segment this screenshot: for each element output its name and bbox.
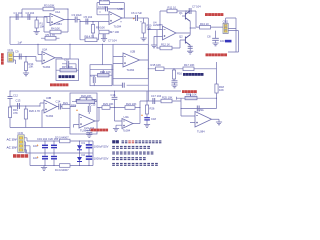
svg-text:10K: 10K	[40, 25, 45, 29]
svg-text:R5 4.7K: R5 4.7K	[46, 33, 56, 37]
svg-text:C13: C13	[16, 99, 21, 103]
svg-text:R8 4.7K: R8 4.7K	[85, 34, 95, 38]
svg-text:C19 104: C19 104	[37, 137, 48, 141]
svg-text:C1 104: C1 104	[14, 11, 23, 15]
svg-text:C16: C16	[111, 93, 116, 97]
svg-text:R17 10K: R17 10K	[184, 63, 195, 67]
svg-text:C18: C18	[151, 117, 156, 121]
svg-text:RP4: RP4	[71, 104, 77, 108]
svg-text:10K: 10K	[219, 88, 224, 92]
svg-text:R16: R16	[177, 72, 182, 76]
svg-text:AC 15V: AC 15V	[7, 145, 17, 149]
svg-text:R26: R26	[150, 107, 155, 111]
svg-text:C10: C10	[64, 57, 69, 61]
svg-text:C7 104: C7 104	[108, 39, 117, 43]
svg-text:C3 10uF: C3 10uF	[72, 13, 83, 17]
svg-text:R15 10K: R15 10K	[151, 63, 162, 67]
svg-text:R9 10K: R9 10K	[96, 26, 105, 30]
svg-text:C20 104: C20 104	[48, 137, 59, 141]
svg-text:R13 10: R13 10	[200, 22, 209, 26]
svg-text:C9: C9	[15, 50, 19, 54]
svg-text:TL084: TL084	[127, 68, 135, 72]
svg-text:TL084: TL084	[46, 114, 54, 118]
svg-text:U3B: U3B	[46, 96, 51, 100]
svg-text:47K: 47K	[13, 111, 18, 115]
svg-text:CN3: CN3	[18, 131, 24, 135]
svg-text:C4 104: C4 104	[98, 5, 107, 9]
svg-text:C14: C14	[56, 100, 61, 104]
svg-text:C2 104: C2 104	[26, 11, 35, 15]
svg-text:Q2: Q2	[179, 35, 183, 39]
svg-text:C6 4.7uF: C6 4.7uF	[131, 11, 142, 15]
svg-text:C11: C11	[91, 74, 96, 78]
svg-text:RP2 10K: RP2 10K	[186, 93, 197, 97]
svg-text:R7 100K: R7 100K	[99, 0, 110, 2]
svg-text:1uF: 1uF	[18, 41, 23, 45]
svg-text:TL084: TL084	[54, 22, 62, 26]
svg-text:+: +	[76, 108, 78, 112]
svg-text:1000uF/25V: 1000uF/25V	[94, 156, 109, 160]
svg-text:U3A: U3A	[199, 108, 204, 112]
svg-text:R3 100K: R3 100K	[44, 4, 55, 8]
svg-text:Q1: Q1	[179, 11, 183, 15]
svg-text:+: +	[37, 144, 39, 148]
svg-text:U2B: U2B	[130, 49, 135, 53]
svg-text:1000uF/25V: 1000uF/25V	[94, 145, 109, 149]
svg-text:+: +	[37, 155, 39, 159]
svg-text:R21: R21	[63, 101, 68, 105]
svg-text:RP3 10K: RP3 10K	[100, 70, 111, 74]
svg-text:R23 10K: R23 10K	[103, 102, 114, 106]
svg-text:R11 10: R11 10	[168, 6, 177, 10]
svg-text:TL084: TL084	[114, 25, 122, 29]
svg-text:+: +	[133, 17, 135, 21]
svg-text:C7 104: C7 104	[192, 5, 201, 9]
svg-text:C5 104: C5 104	[84, 15, 93, 19]
svg-text:C15: C15	[91, 103, 96, 107]
svg-text:AC 15V: AC 15V	[7, 137, 17, 141]
svg-text:TL084: TL084	[43, 65, 51, 69]
svg-text:D2: D2	[82, 153, 86, 157]
svg-text:U1A: U1A	[55, 10, 60, 14]
svg-text:TL084: TL084	[123, 129, 131, 133]
svg-text:CN2: CN2	[223, 20, 229, 24]
svg-text:TL084: TL084	[197, 130, 205, 134]
svg-text:4.7 100: 4.7 100	[110, 30, 119, 34]
svg-text:R22 10K: R22 10K	[81, 94, 92, 98]
svg-text:RP1 50K: RP1 50K	[62, 65, 73, 69]
svg-text:U4A: U4A	[124, 115, 129, 119]
svg-text:R24 10K: R24 10K	[126, 102, 137, 106]
svg-text:10K: 10K	[29, 65, 34, 69]
svg-text:R12 1K: R12 1K	[161, 43, 170, 47]
svg-text:D4 1N4007: D4 1N4007	[55, 168, 69, 172]
svg-text:C17 104: C17 104	[151, 94, 162, 98]
svg-text:103: 103	[220, 39, 225, 43]
svg-text:D1: D1	[82, 141, 86, 145]
svg-text:U2A: U2A	[42, 48, 47, 52]
svg-text:R4 10K: R4 10K	[51, 27, 60, 31]
svg-text:U1B: U1B	[118, 7, 123, 11]
svg-text:R25 10K: R25 10K	[162, 95, 173, 99]
svg-text:CN1: CN1	[8, 48, 14, 52]
svg-text:+: +	[141, 114, 143, 118]
svg-text:C8: C8	[207, 35, 211, 39]
svg-text:R20 4.7K: R20 4.7K	[29, 109, 40, 113]
svg-text:LM1875: LM1875	[153, 23, 163, 27]
svg-text:C12: C12	[13, 93, 18, 97]
svg-text:10K: 10K	[147, 27, 152, 31]
